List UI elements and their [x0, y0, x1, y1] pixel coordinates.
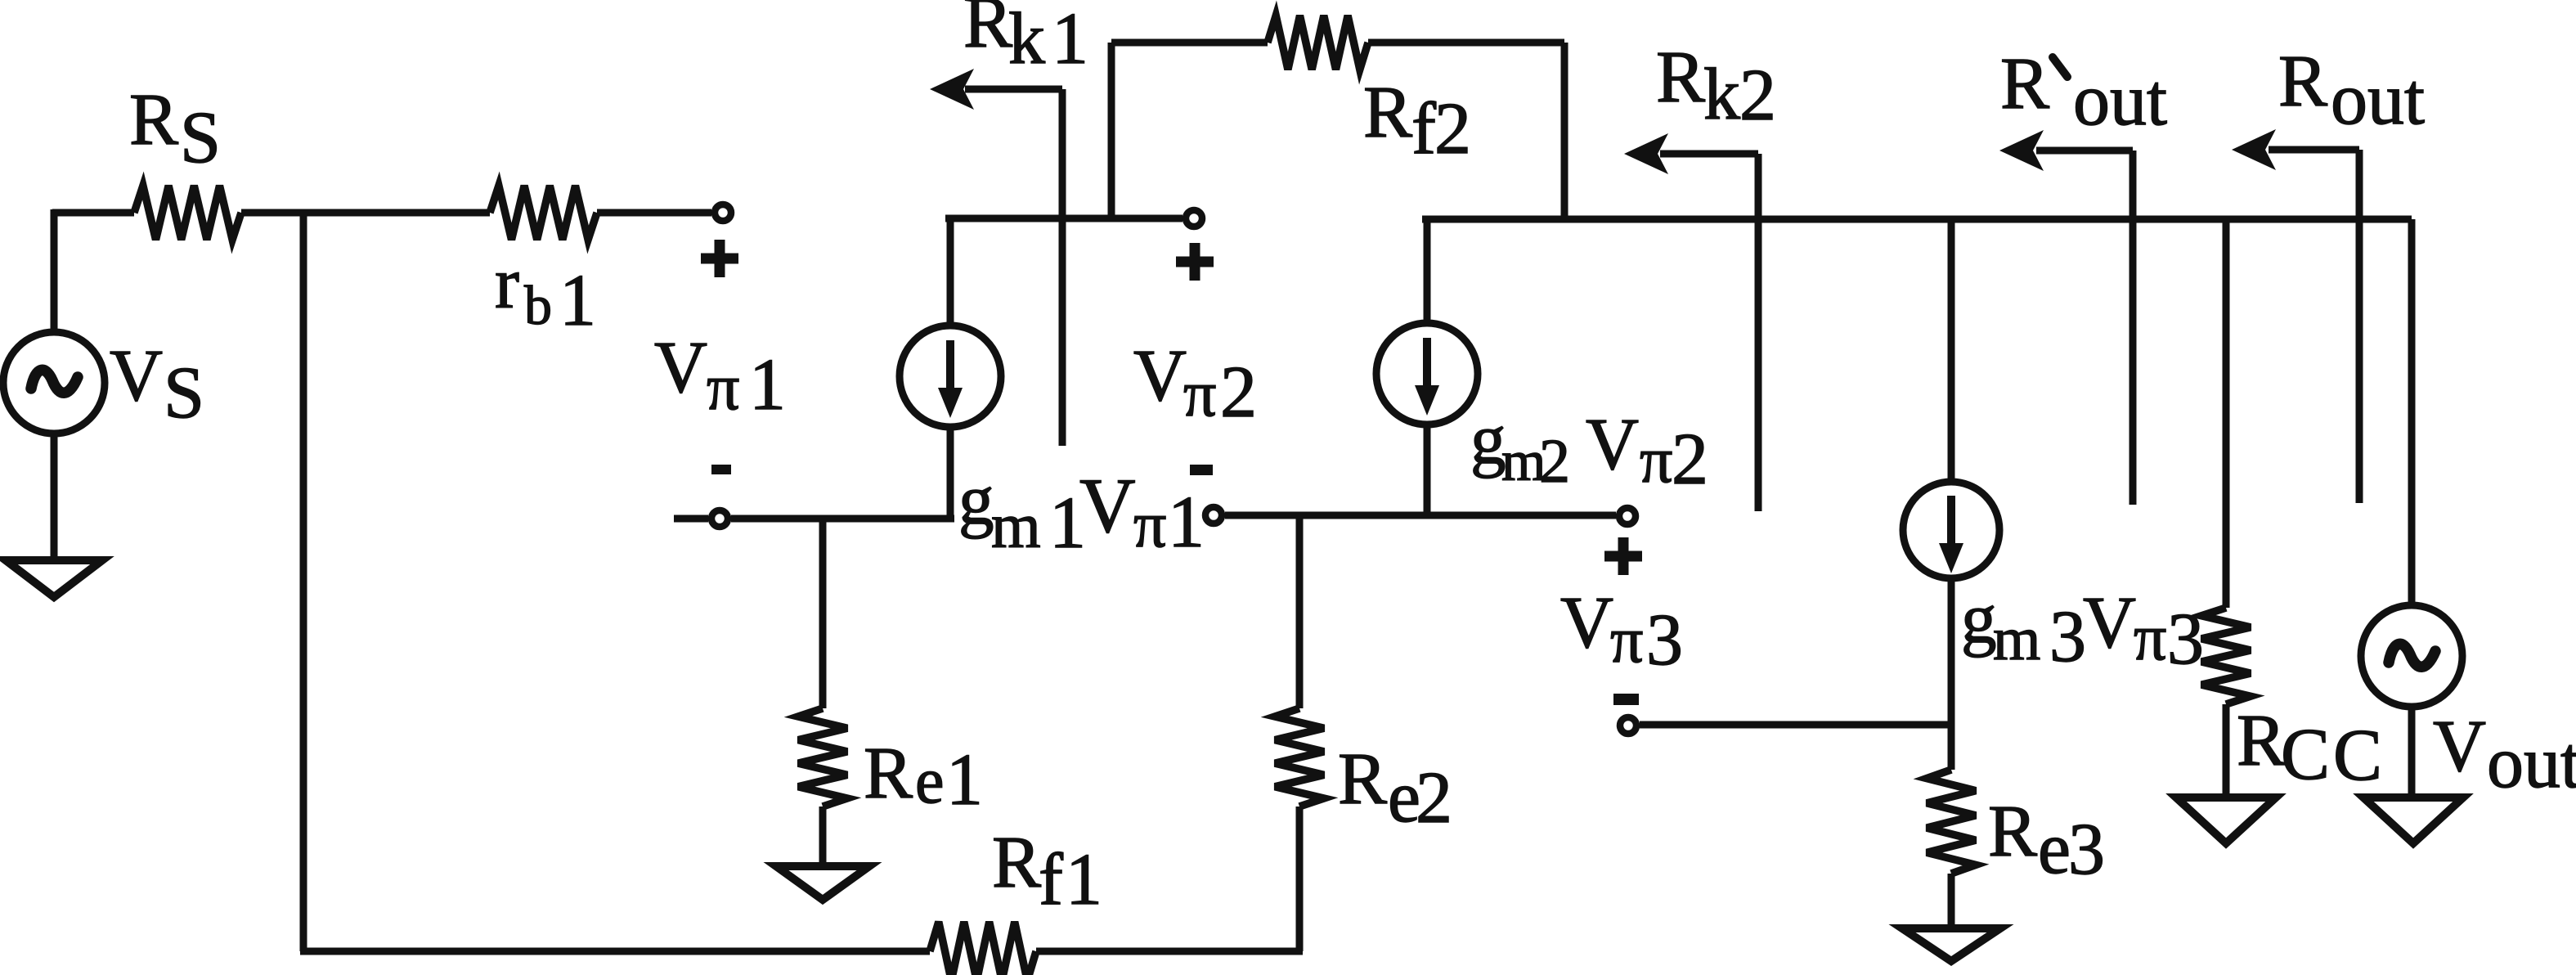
svg-text:π: π [1183, 358, 1216, 430]
arrow Rout [2269, 150, 2359, 503]
wire: gm3 feed [1948, 219, 1955, 480]
svg-text:3: 3 [2068, 809, 2105, 890]
plus Vpi3 [1604, 537, 1642, 575]
wire: gm3 to node3 [1948, 578, 1955, 723]
wire: Re2 branch [1296, 515, 1304, 708]
wire: Rf2 right leg [1368, 43, 1564, 219]
ground below RCC [2176, 798, 2276, 843]
wire: RCC branch [2223, 219, 2230, 608]
svg-text:R: R [129, 79, 178, 160]
minus Vpi3 [1613, 694, 1639, 705]
svg-text:R: R [2278, 41, 2327, 122]
wire [1948, 874, 1955, 931]
svg-text:1: 1 [749, 344, 786, 425]
wire: node3 to gm3/Re3 junction [1640, 721, 1951, 729]
svg-text:2: 2 [1416, 757, 1452, 838]
svg-text:k: k [1008, 0, 1045, 79]
wire [597, 209, 711, 217]
minus Vpi2 [1190, 465, 1213, 475]
svg-text:2: 2 [1539, 427, 1570, 496]
svg-text:R: R [963, 0, 1012, 63]
svg-text:g: g [1961, 578, 1997, 658]
node Vpi3 + terminal [1619, 508, 1636, 524]
source VS circle [3, 332, 105, 434]
svg-text:R: R [2000, 43, 2049, 124]
plus Vpi2 [1176, 243, 1214, 281]
svg-text:2: 2 [1220, 352, 1257, 433]
svg-text:e: e [2038, 808, 2071, 889]
wire: gm2 to node2 [1424, 425, 1431, 515]
svg-text:V: V [1079, 462, 1136, 549]
node Vpi1 + terminal [715, 204, 731, 221]
current source gm1Vpi1 [900, 326, 1001, 427]
svg-text:V: V [1133, 335, 1187, 416]
resistor Rf1 [930, 922, 1036, 975]
svg-text:3: 3 [2049, 596, 2086, 677]
wire [819, 807, 827, 869]
svg-text:V: V [1586, 404, 1639, 485]
wire: node2 (emitter Q2) [1225, 512, 1616, 519]
resistor Rf2 [1268, 16, 1368, 70]
wire [241, 209, 490, 217]
minus Vpi1 [711, 465, 731, 474]
svg-text:R: R [2237, 700, 2286, 781]
wire: gm1 feed from bus [947, 218, 954, 326]
current source gm3Vpi3 [1903, 482, 1999, 578]
svg-text:R: R [1363, 72, 1412, 153]
wire: bus segment B [1422, 219, 2412, 605]
resistor RCC [2201, 608, 2251, 704]
svg-text:R: R [864, 733, 913, 814]
svg-text:r: r [495, 243, 519, 324]
svg-text:2: 2 [1739, 55, 1776, 136]
resistor RS [134, 186, 241, 240]
wire [1296, 807, 1304, 951]
wire: bus segment A [945, 215, 1183, 222]
svg-text:π: π [2134, 602, 2166, 674]
svg-text:V: V [654, 327, 707, 408]
svg-text:2: 2 [1434, 88, 1471, 169]
wire: bottom feedback with Rf1 inline [300, 948, 930, 955]
plus Vpi1 [701, 240, 738, 277]
current source gm2Vpi2 [1376, 323, 1478, 425]
svg-text:C: C [2281, 714, 2330, 795]
svg-text:V: V [110, 335, 163, 416]
ground below VS [6, 560, 102, 597]
wire: Rf2 left leg [1111, 43, 1268, 218]
svg-text:3: 3 [1646, 600, 1683, 681]
svg-text:R: R [992, 822, 1041, 903]
wire: gm1 to node1 [947, 427, 954, 519]
wire: feedback left vertical [300, 209, 307, 951]
wire: top bus left segment with Rs and rb1 inline [52, 209, 134, 217]
svg-text:k: k [1703, 54, 1740, 135]
svg-text:3: 3 [2167, 599, 2204, 680]
svg-text:1: 1 [1052, 0, 1088, 79]
svg-text:out: out [2487, 722, 2576, 803]
svg-text:π: π [1133, 489, 1166, 561]
arrow R'out [2036, 151, 2133, 505]
ground below Re1 [776, 866, 869, 900]
svg-text:R: R [1656, 37, 1705, 118]
wire: Re1 branch [819, 519, 827, 708]
source VS branch wire [51, 209, 58, 563]
svg-text:C: C [2333, 715, 2382, 796]
wire: node1 (emitter Q1) [674, 515, 954, 523]
resistor rb1 [490, 186, 597, 240]
svg-text:R: R [1988, 791, 2037, 872]
wire: gm2 feed [1424, 219, 1431, 322]
ground below Re3 [1902, 928, 2000, 961]
arrow Rk1 [965, 89, 1062, 446]
resistor Re2 [1275, 708, 1324, 807]
svg-text:1: 1 [1066, 839, 1102, 920]
svg-text:S: S [164, 353, 204, 434]
arrow Rk2 [1660, 154, 1758, 511]
svg-text:g: g [1470, 399, 1506, 479]
svg-text:S: S [180, 97, 221, 178]
source Vout circle [2361, 605, 2462, 707]
wire [2223, 704, 2230, 800]
node Vpi1 - terminal [711, 510, 728, 527]
svg-text:1: 1 [559, 260, 596, 341]
svg-text:π: π [1610, 604, 1643, 676]
resistor Re3 [1948, 723, 1955, 770]
svg-text:V: V [2083, 582, 2136, 663]
svg-text:m: m [1993, 605, 2040, 673]
node Vpi3 - terminal [1620, 717, 1636, 734]
svg-text:π: π [1640, 425, 1672, 496]
wire [1036, 948, 1303, 955]
svg-text:1: 1 [946, 739, 983, 820]
svg-text:2: 2 [1672, 419, 1708, 500]
svg-text:m: m [991, 490, 1041, 561]
node Vpi2 - terminal [1205, 507, 1222, 523]
svg-text:R: R [1338, 739, 1387, 820]
wire: Vout to ground [2408, 707, 2416, 800]
svg-text:e: e [915, 745, 945, 817]
svg-text:out: out [2331, 59, 2425, 140]
svg-text:b: b [524, 274, 552, 336]
svg-text:V: V [2433, 706, 2486, 787]
svg-text:out: out [2073, 60, 2167, 141]
node Vpi2 + terminal [1186, 210, 1202, 227]
svg-text:f: f [1411, 88, 1436, 169]
svg-text:π: π [707, 352, 739, 424]
svg-text:g: g [958, 460, 994, 539]
svg-text:1: 1 [1168, 482, 1205, 563]
resistor Re1 [798, 708, 847, 807]
svg-text:f: f [1039, 839, 1063, 920]
ground below Vout [2363, 798, 2463, 843]
svg-text:V: V [1560, 582, 1613, 663]
